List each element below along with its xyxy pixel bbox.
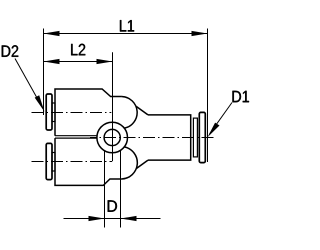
label D2 bbox=[2, 45, 18, 57]
dimension D arrow left bbox=[89, 216, 105, 221]
dimension L1 arrow right bbox=[192, 31, 208, 36]
dimension L2 line bbox=[44, 61, 113, 63]
center line upper port bbox=[32, 112, 112, 114]
extension line D right bbox=[120, 151, 122, 228]
center line main axis bbox=[90, 137, 215, 139]
label L1 bbox=[120, 20, 134, 31]
dimension L2 arrow right bbox=[97, 59, 113, 64]
body slot lower edge bbox=[55, 137, 97, 139]
transition slant lower bbox=[136, 160, 148, 168]
leader D1 bbox=[210, 103, 233, 135]
extension line center axis vertical bbox=[112, 52, 114, 161]
cap arc lower branch bbox=[122, 147, 138, 179]
label D bbox=[108, 200, 117, 211]
leader D2 arrowhead bbox=[35, 95, 45, 112]
inner bore circle bbox=[104, 129, 120, 145]
body outline bbox=[55, 89, 122, 136]
leader D1 arrowhead bbox=[208, 123, 220, 138]
collar lower left port bbox=[46, 143, 52, 179]
label L2 bbox=[71, 44, 85, 56]
right step ring bbox=[193, 118, 197, 157]
outer boss circle bbox=[97, 122, 128, 153]
collar upper left port bbox=[46, 94, 52, 130]
extension line D left bbox=[104, 150, 106, 227]
label D1 bbox=[232, 91, 248, 102]
extension line right (outlet end) bbox=[207, 29, 209, 163]
step upper left port bbox=[52, 103, 55, 122]
body outline lower bbox=[55, 138, 122, 185]
body slot upper edge bbox=[55, 135, 97, 137]
right port cylinder bbox=[148, 115, 191, 160]
step lower left port bbox=[52, 153, 55, 172]
dimension D arrow right bbox=[121, 216, 137, 221]
dimension L1 arrow left bbox=[44, 31, 60, 36]
leader D2 bbox=[15, 59, 43, 109]
center line lower port bbox=[32, 161, 113, 163]
dimension D line bbox=[64, 218, 161, 220]
extension line left (collar face) bbox=[43, 29, 45, 116]
transition slant upper bbox=[136, 107, 148, 115]
dimension L2 arrow left bbox=[44, 59, 60, 64]
cap arc upper branch bbox=[122, 97, 138, 129]
right collar bbox=[199, 112, 205, 162]
dimension L1 line bbox=[44, 33, 208, 35]
